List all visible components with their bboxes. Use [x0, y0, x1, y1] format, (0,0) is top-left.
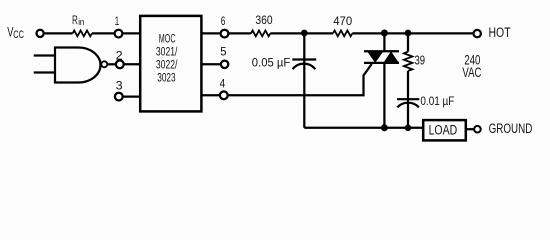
capacitor C2 0.01uF curved plate	[397, 103, 419, 108]
triac Q1 bottom bar	[364, 62, 399, 64]
pin 1 terminal	[115, 30, 123, 38]
wire bottom rail	[304, 127, 422, 129]
wire bubble to pin 2	[107, 63, 116, 65]
svg-text:3021/: 3021/	[156, 47, 178, 59]
pin 5 terminal	[221, 61, 228, 68]
NAND gate U1 input wire A	[34, 54, 55, 56]
NAND gate U1 output bubble	[101, 61, 107, 67]
resistor Rin	[73, 31, 92, 37]
label Rin	[72, 15, 84, 28]
resistor R 39 lead from rail	[407, 33, 409, 51]
wire R360 to R470 through node	[270, 32, 333, 34]
triac Q1 MT2 lead	[383, 33, 385, 51]
label MOC type	[156, 34, 178, 85]
svg-text:4: 4	[220, 77, 226, 91]
resistor R 39	[404, 52, 413, 71]
label VCC	[7, 23, 24, 40]
wire MOC box to pin 4	[201, 94, 221, 96]
triac Q1 right triangle	[383, 51, 399, 63]
wire MOC box to pin 6	[201, 32, 221, 34]
svg-text:6: 6	[221, 14, 226, 28]
svg-text:in: in	[78, 17, 84, 28]
svg-text:VAC: VAC	[462, 64, 481, 80]
wire Rin to pin 1	[92, 32, 115, 34]
label 240 VAC	[462, 51, 481, 80]
svg-text:1: 1	[115, 14, 120, 28]
pin 3 terminal	[115, 93, 123, 101]
capacitor C1 0.05uF curved plate	[293, 64, 316, 70]
wire pin 2 to MOC box	[124, 63, 141, 65]
node HOT terminal	[474, 30, 481, 37]
svg-text:GROUND: GROUND	[489, 121, 533, 136]
NAND gate U1 input wire B	[34, 71, 55, 73]
wire pin 4 to triac gate	[228, 64, 372, 95]
triac Q1 top bar	[364, 50, 399, 52]
wire LOAD to GROUND	[466, 128, 474, 130]
svg-text:3022/: 3022/	[156, 59, 178, 71]
wire pin 3 to MOC box	[123, 95, 141, 97]
wire R470 to HOT	[352, 32, 473, 34]
svg-text:360: 360	[255, 13, 272, 27]
resistor R 360	[251, 31, 270, 37]
svg-text:HOT: HOT	[489, 25, 511, 40]
wire R39 to C2	[407, 71, 409, 128]
svg-text:0.01 µF: 0.01 µF	[420, 94, 454, 108]
wire MOC box to pin 5	[201, 63, 221, 65]
svg-text:0.05 µF: 0.05 µF	[252, 55, 290, 69]
svg-text:5: 5	[220, 45, 227, 59]
node VCC terminal	[37, 30, 44, 37]
junction node B (470/triac)	[381, 30, 388, 37]
node GROUND terminal	[474, 126, 481, 133]
capacitor C2 0.01uF top plate	[397, 98, 419, 100]
svg-text:470: 470	[333, 14, 352, 28]
svg-text:LOAD: LOAD	[429, 123, 458, 138]
pin 4 terminal	[220, 91, 228, 99]
junction node C (snubber top)	[405, 30, 412, 37]
pin 6 terminal	[221, 30, 229, 38]
junction node A (360/470/C1)	[301, 30, 308, 37]
pin 2 terminal	[116, 60, 124, 68]
wire pin 1 to MOC box	[122, 32, 141, 34]
junction node E (snubber bottom)	[405, 125, 412, 132]
capacitor C1 0.05uF lead	[303, 33, 305, 127]
svg-text:MOC: MOC	[159, 34, 176, 46]
svg-text:3023: 3023	[157, 72, 176, 84]
wire VCC to Rin	[44, 32, 73, 34]
svg-text:CC: CC	[13, 29, 24, 41]
svg-text:39: 39	[415, 54, 426, 68]
triac Q1 MT1 lead	[383, 63, 385, 128]
load box	[423, 120, 466, 140]
svg-text:R: R	[72, 15, 78, 27]
svg-text:3: 3	[116, 78, 123, 92]
resistor R 470	[333, 31, 352, 37]
triac Q1 left triangle	[367, 51, 383, 63]
capacitor C1 0.05uF top plate	[292, 58, 316, 60]
optocoupler U2 MOC box	[140, 16, 201, 112]
NAND gate U1 body	[55, 48, 101, 83]
wire pin 6 to R 360	[228, 32, 251, 34]
junction node D (triac MT1/bottom rail)	[381, 124, 388, 131]
svg-text:2: 2	[116, 48, 123, 62]
